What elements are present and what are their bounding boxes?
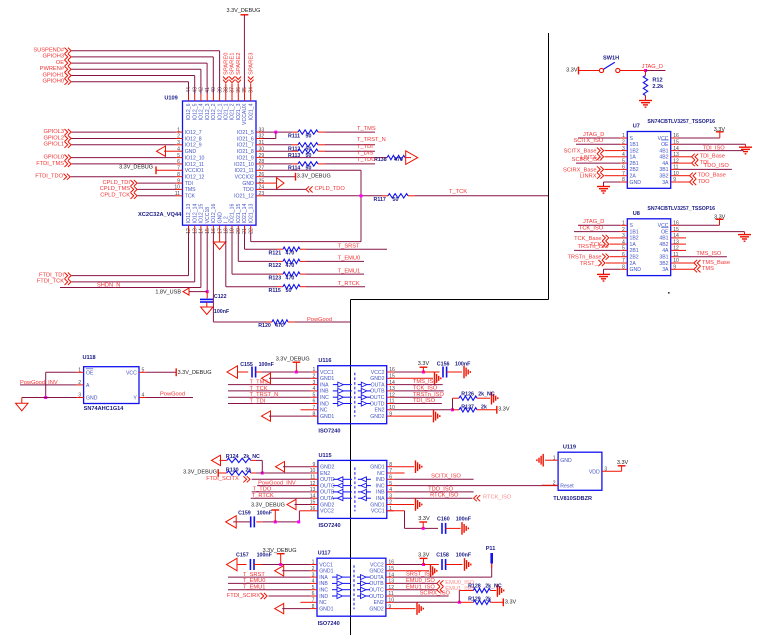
- svg-text:34: 34: [248, 87, 254, 93]
- svg-text:3B2: 3B2: [659, 174, 668, 180]
- svg-text:2.2k: 2.2k: [652, 84, 664, 90]
- svg-text:OE: OE: [661, 229, 669, 235]
- svg-text:6: 6: [177, 159, 180, 165]
- svg-text:1: 1: [553, 455, 556, 461]
- svg-text:5: 5: [622, 158, 625, 164]
- svg-text:GND2: GND2: [370, 414, 384, 420]
- svg-text:VCC: VCC: [658, 223, 669, 229]
- svg-text:1B1: 1B1: [630, 229, 639, 235]
- svg-text:R123: R123: [269, 276, 282, 282]
- svg-text:GPIOH1: GPIOH1: [43, 72, 65, 78]
- svg-text:R121: R121: [269, 251, 282, 257]
- svg-text:TDO_ISO: TDO_ISO: [428, 486, 454, 492]
- svg-text:IND: IND: [320, 401, 329, 407]
- svg-text:44: 44: [186, 87, 192, 93]
- svg-text:T_DIS: T_DIS: [357, 151, 373, 157]
- svg-text:38: 38: [224, 87, 230, 93]
- svg-text:SCITX_ISO: SCITX_ISO: [431, 474, 461, 480]
- svg-text:GPIOL0: GPIOL0: [43, 154, 64, 160]
- svg-text:TCK_ISO: TCK_ISO: [413, 386, 438, 392]
- svg-text:IO21_8: IO21_8: [237, 149, 254, 155]
- svg-text:TDI_ISO: TDI_ISO: [703, 146, 726, 152]
- svg-text:100nF: 100nF: [456, 553, 472, 559]
- svg-text:SPARE2: SPARE2: [236, 53, 242, 75]
- svg-text:IND: IND: [376, 477, 385, 483]
- svg-text:7: 7: [622, 258, 625, 264]
- svg-text:IO21_5: IO21_5: [237, 130, 254, 136]
- svg-text:GND: GND: [630, 180, 642, 186]
- svg-text:INA: INA: [376, 496, 385, 502]
- svg-text:R124: R124: [226, 454, 239, 460]
- svg-text:VCC18: VCC18: [205, 207, 211, 224]
- svg-text:OUTA: OUTA: [371, 382, 385, 388]
- svg-text:TLV810SDBZR: TLV810SDBZR: [553, 496, 592, 502]
- svg-text:GPIOH3: GPIOH3: [43, 54, 65, 60]
- svg-text:6: 6: [622, 252, 625, 258]
- svg-text:TMS_ISO: TMS_ISO: [413, 379, 439, 385]
- svg-text:100nF: 100nF: [214, 309, 230, 315]
- svg-text:GND2: GND2: [320, 465, 334, 471]
- svg-text:SCITX_ISO: SCITX_ISO: [573, 138, 603, 144]
- svg-text:T_TRST_N: T_TRST_N: [250, 392, 279, 398]
- svg-text:1B2: 1B2: [630, 236, 639, 242]
- svg-text:18: 18: [224, 228, 230, 234]
- svg-text:CPLD_TMS: CPLD_TMS: [100, 186, 131, 192]
- svg-text:3.3V: 3.3V: [617, 460, 629, 466]
- svg-text:2: 2: [553, 481, 556, 487]
- svg-text:R126: R126: [461, 392, 474, 398]
- svg-text:OUTD: OUTD: [369, 594, 384, 600]
- svg-text:U118: U118: [83, 355, 96, 361]
- svg-text:VCC2: VCC2: [370, 562, 384, 568]
- svg-text:T_EMU1: T_EMU1: [338, 268, 360, 274]
- svg-text:IO12_13: IO12_13: [186, 204, 192, 224]
- svg-text:2B2: 2B2: [630, 167, 639, 173]
- svg-text:JTAG_D: JTAG_D: [583, 219, 604, 225]
- svg-text:A: A: [86, 383, 90, 389]
- svg-text:SUSPEND#: SUSPEND#: [33, 48, 64, 54]
- svg-text:9: 9: [673, 177, 676, 183]
- svg-text:12: 12: [186, 228, 192, 234]
- svg-text:INB: INB: [319, 581, 328, 587]
- svg-text:50: 50: [306, 134, 312, 140]
- svg-text:INB: INB: [376, 490, 385, 496]
- svg-text:INC: INC: [319, 588, 328, 594]
- svg-text:NC: NC: [320, 408, 328, 414]
- svg-text:4: 4: [389, 487, 392, 493]
- svg-text:VCC: VCC: [658, 136, 669, 142]
- svg-text:3B2: 3B2: [659, 261, 668, 267]
- svg-text:VCC1: VCC1: [320, 370, 334, 376]
- svg-text:FTDI_TMS: FTDI_TMS: [36, 161, 64, 167]
- svg-text:ISO7240: ISO7240: [318, 621, 340, 627]
- svg-text:GND1: GND1: [319, 606, 333, 612]
- svg-text:50: 50: [393, 197, 399, 203]
- svg-text:IO21_11: IO21_11: [234, 168, 253, 174]
- svg-text:OE: OE: [661, 142, 669, 148]
- svg-text:6: 6: [622, 165, 625, 171]
- svg-text:GND1: GND1: [370, 465, 384, 471]
- svg-text:TMS_Base: TMS_Base: [702, 260, 730, 266]
- svg-text:R115: R115: [269, 288, 281, 294]
- svg-text:5: 5: [177, 153, 180, 159]
- svg-text:TCK_ISO: TCK_ISO: [579, 225, 604, 231]
- svg-text:IO21_15: IO21_15: [236, 204, 242, 224]
- svg-text:T_TDO: T_TDO: [357, 157, 376, 163]
- svg-text:ISO7240: ISO7240: [319, 523, 341, 529]
- svg-text:SPARE3: SPARE3: [248, 53, 254, 75]
- svg-text:U8: U8: [633, 211, 640, 217]
- svg-text:GPIOL1: GPIOL1: [43, 142, 64, 148]
- svg-text:VCCAUX: VCCAUX: [242, 103, 248, 125]
- svg-text:OUTC: OUTC: [320, 483, 335, 489]
- svg-text:3: 3: [78, 393, 81, 399]
- svg-text:SN74CBTLV3257_TSSOP16: SN74CBTLV3257_TSSOP16: [647, 119, 715, 125]
- svg-text:5: 5: [312, 585, 315, 591]
- svg-text:U109: U109: [164, 96, 177, 102]
- svg-text:OE: OE: [86, 370, 94, 376]
- svg-text:TCK_Base: TCK_Base: [574, 236, 602, 242]
- svg-text:GND: GND: [630, 267, 642, 273]
- svg-text:1: 1: [622, 221, 625, 227]
- svg-text:SHDN_N: SHDN_N: [97, 282, 120, 288]
- svg-text:OUTD: OUTD: [370, 401, 385, 407]
- svg-text:4B2: 4B2: [659, 155, 668, 161]
- svg-text:C122: C122: [214, 294, 227, 300]
- svg-text:GND2: GND2: [320, 502, 334, 508]
- svg-text:R120: R120: [258, 323, 271, 329]
- svg-text:3A: 3A: [662, 180, 669, 186]
- svg-text:5: 5: [312, 392, 315, 398]
- svg-text:9: 9: [389, 411, 392, 417]
- svg-text:IO12_4: IO12_4: [199, 103, 205, 120]
- svg-text:2: 2: [389, 500, 392, 506]
- svg-text:C158: C158: [436, 553, 449, 559]
- svg-text:4B2: 4B2: [659, 242, 668, 248]
- svg-text:SRST_ISO: SRST_ISO: [406, 572, 435, 578]
- svg-text:1A: 1A: [630, 242, 637, 248]
- svg-text:2A: 2A: [630, 261, 637, 267]
- svg-text:R128: R128: [468, 584, 481, 590]
- svg-text:VCC1: VCC1: [319, 562, 333, 568]
- svg-text:4: 4: [142, 393, 145, 399]
- svg-text:IO12_9: IO12_9: [185, 143, 202, 149]
- svg-text:14: 14: [199, 228, 205, 234]
- svg-text:GND1: GND1: [319, 569, 333, 575]
- svg-text:3.3V: 3.3V: [418, 516, 430, 522]
- svg-text:R122: R122: [269, 263, 282, 269]
- svg-text:FTDI_TDI: FTDI_TDI: [39, 272, 64, 278]
- svg-text:T_EMU1: T_EMU1: [243, 585, 265, 591]
- svg-text:IO12_15: IO12_15: [199, 204, 205, 224]
- svg-text:I_2: I_2: [224, 216, 230, 223]
- svg-text:CPLD_TCK: CPLD_TCK: [100, 193, 130, 199]
- svg-text:IO21_10: IO21_10: [234, 162, 254, 168]
- svg-text:3: 3: [622, 146, 625, 152]
- svg-text:OUTB: OUTB: [369, 581, 384, 587]
- svg-text:PowGood: PowGood: [307, 317, 332, 323]
- svg-text:1: 1: [312, 560, 315, 566]
- svg-text:OUTB: OUTB: [370, 389, 385, 395]
- svg-text:C159: C159: [238, 510, 251, 516]
- svg-text:C160: C160: [437, 516, 450, 522]
- svg-text:EMU0_ISO: EMU0_ISO: [406, 578, 435, 584]
- svg-text:4B1: 4B1: [659, 236, 668, 242]
- svg-text:SPARE0: SPARE0: [224, 53, 230, 75]
- svg-text:4: 4: [177, 146, 180, 152]
- svg-text:R127: R127: [461, 404, 474, 410]
- svg-text:EN2: EN2: [320, 471, 330, 477]
- svg-text:2: 2: [177, 134, 180, 140]
- svg-text:VCCIO1: VCCIO1: [185, 168, 204, 174]
- svg-text:17: 17: [217, 228, 223, 234]
- svg-text:IND: IND: [319, 594, 328, 600]
- svg-text:4: 4: [312, 579, 315, 585]
- svg-text:TMS: TMS: [185, 187, 196, 193]
- svg-text:IO12_1: IO12_1: [217, 103, 223, 120]
- svg-text:100nF: 100nF: [257, 510, 273, 516]
- svg-text:11: 11: [175, 191, 180, 197]
- svg-text:TRSTn_ISO: TRSTn_ISO: [578, 244, 610, 250]
- svg-text:RTCK_ISO: RTCK_ISO: [430, 493, 459, 499]
- svg-text:470: 470: [275, 323, 284, 329]
- svg-text:3.3V: 3.3V: [714, 215, 726, 221]
- svg-text:OE: OE: [56, 60, 64, 66]
- svg-text:GND: GND: [86, 396, 98, 402]
- svg-text:2B1: 2B1: [630, 161, 639, 167]
- svg-text:SCIRX_ISO: SCIRX_ISO: [420, 591, 451, 597]
- svg-text:IO12_8: IO12_8: [185, 136, 202, 142]
- svg-text:2: 2: [312, 374, 315, 380]
- svg-text:IO21_14: IO21_14: [242, 204, 248, 224]
- svg-text:40: 40: [211, 87, 217, 93]
- svg-text:11: 11: [310, 475, 315, 481]
- svg-text:IO21_4: IO21_4: [248, 103, 254, 120]
- svg-text:4A: 4A: [662, 248, 669, 254]
- svg-text:T_SRST: T_SRST: [243, 572, 265, 578]
- svg-text:3A: 3A: [662, 267, 669, 273]
- svg-text:1: 1: [177, 127, 180, 133]
- svg-text:CPLD_TDI: CPLD_TDI: [103, 180, 131, 186]
- svg-text:3.3V: 3.3V: [418, 361, 430, 367]
- svg-text:IO12_10: IO12_10: [185, 155, 205, 161]
- svg-text:35: 35: [242, 87, 248, 93]
- svg-text:1.8V_USB: 1.8V_USB: [155, 290, 181, 296]
- svg-text:NC: NC: [377, 471, 385, 477]
- svg-text:VCC: VCC: [126, 370, 137, 376]
- svg-text:TMS: TMS: [702, 266, 714, 272]
- svg-text:S: S: [630, 136, 634, 142]
- svg-text:4: 4: [312, 386, 315, 392]
- svg-text:INB: INB: [320, 389, 329, 395]
- svg-text:9: 9: [673, 265, 676, 271]
- svg-text:3: 3: [389, 493, 392, 499]
- svg-text:INA: INA: [319, 575, 328, 581]
- svg-text:T_TCK: T_TCK: [449, 189, 467, 195]
- svg-text:GND1: GND1: [320, 414, 334, 420]
- svg-text:IO12_5: IO12_5: [192, 103, 198, 120]
- svg-text:T_SRST: T_SRST: [338, 243, 360, 249]
- svg-text:3.3V: 3.3V: [505, 600, 517, 606]
- svg-text:SCIRX_Base: SCIRX_Base: [563, 167, 597, 173]
- svg-text:100nF: 100nF: [456, 516, 472, 522]
- svg-text:3.3V_DEBUG: 3.3V_DEBUG: [276, 356, 310, 362]
- svg-text:20: 20: [236, 228, 242, 234]
- svg-text:2A: 2A: [630, 174, 637, 180]
- svg-text:OUTB: OUTB: [320, 490, 335, 496]
- svg-text:IO21_16: IO21_16: [230, 204, 236, 224]
- svg-text:3: 3: [604, 467, 607, 473]
- svg-text:SPARE1: SPARE1: [230, 53, 236, 75]
- svg-text:8: 8: [312, 411, 315, 417]
- svg-text:1: 1: [78, 368, 81, 374]
- svg-text:TMS_ISO: TMS_ISO: [696, 251, 722, 257]
- svg-text:7: 7: [622, 171, 625, 177]
- svg-text:T_TMS: T_TMS: [250, 380, 269, 386]
- svg-text:IO12_12: IO12_12: [185, 175, 205, 181]
- svg-text:8: 8: [622, 177, 625, 183]
- svg-text:3.3V_DEBUG: 3.3V_DEBUG: [183, 470, 217, 476]
- svg-text:43: 43: [192, 87, 198, 93]
- svg-text:7: 7: [312, 405, 315, 411]
- svg-text:GPIOL2: GPIOL2: [43, 135, 64, 141]
- svg-text:3B1: 3B1: [659, 255, 668, 261]
- svg-text:JTAG_D: JTAG_D: [642, 64, 663, 70]
- svg-text:R12: R12: [652, 77, 662, 83]
- svg-text:FTDI_TCK: FTDI_TCK: [37, 279, 64, 285]
- svg-text:TRSTn_ISO: TRSTn_ISO: [413, 392, 445, 398]
- svg-text:41: 41: [205, 87, 211, 93]
- svg-text:GPIOL3: GPIOL3: [43, 129, 64, 135]
- svg-text:IO12_11: IO12_11: [185, 162, 204, 168]
- svg-text:GPIOH0: GPIOH0: [43, 79, 65, 85]
- svg-text:OUTA: OUTA: [320, 496, 334, 502]
- svg-text:IO21_9: IO21_9: [237, 155, 254, 161]
- svg-text:IO21_7: IO21_7: [237, 143, 254, 149]
- svg-text:3.3V_DEBUG: 3.3V_DEBUG: [119, 164, 153, 170]
- svg-text:3.3V: 3.3V: [498, 407, 510, 413]
- svg-text:PWREN#: PWREN#: [40, 66, 65, 72]
- svg-text:100nF: 100nF: [257, 552, 273, 558]
- svg-text:VCC2: VCC2: [320, 509, 334, 515]
- svg-text:U7: U7: [633, 124, 640, 130]
- svg-text:T_TRST_N: T_TRST_N: [357, 137, 386, 143]
- svg-text:100nF: 100nF: [259, 362, 275, 368]
- svg-text:OUTC: OUTC: [369, 588, 384, 594]
- svg-text:1: 1: [622, 133, 625, 139]
- svg-text:NC: NC: [319, 600, 327, 606]
- svg-text:IO21_1: IO21_1: [224, 103, 230, 120]
- svg-text:21: 21: [242, 228, 248, 234]
- svg-text:CPLD_TDO: CPLD_TDO: [315, 186, 346, 192]
- svg-text:IO21_13: IO21_13: [248, 204, 254, 224]
- svg-text:1B2: 1B2: [630, 148, 639, 154]
- svg-text:XC2C32A_VQ44: XC2C32A_VQ44: [138, 212, 182, 218]
- svg-text:EMU1_ISO: EMU1_ISO: [406, 584, 435, 590]
- svg-text:2k_NC: 2k_NC: [485, 584, 502, 590]
- svg-text:1: 1: [312, 367, 315, 373]
- svg-text:SN74CBTLV3257_TSSOP16: SN74CBTLV3257_TSSOP16: [647, 206, 715, 212]
- svg-text:U119: U119: [563, 444, 576, 450]
- svg-text:470: 470: [286, 263, 295, 269]
- svg-text:JTAG_D: JTAG_D: [583, 132, 604, 138]
- svg-text:3: 3: [312, 572, 315, 578]
- svg-text:8: 8: [389, 462, 392, 468]
- svg-text:IO12_7: IO12_7: [185, 130, 202, 136]
- svg-text:470: 470: [394, 157, 403, 163]
- svg-text:9: 9: [177, 178, 180, 184]
- svg-text:3: 3: [177, 140, 180, 146]
- svg-text:2: 2: [622, 227, 625, 233]
- svg-text:INC: INC: [320, 395, 329, 401]
- svg-text:22: 22: [248, 228, 254, 234]
- svg-text:RTCK_ISO: RTCK_ISO: [483, 495, 512, 501]
- svg-text:IO12_16: IO12_16: [211, 204, 217, 224]
- svg-text:470: 470: [286, 251, 295, 257]
- svg-text:8: 8: [622, 265, 625, 271]
- svg-text:7: 7: [312, 598, 315, 604]
- svg-text:16: 16: [211, 228, 217, 234]
- svg-text:9: 9: [388, 604, 391, 610]
- svg-text:5: 5: [622, 246, 625, 252]
- svg-text:2: 2: [622, 140, 625, 146]
- svg-text:SW1H: SW1H: [603, 55, 619, 61]
- svg-text:37: 37: [230, 87, 236, 93]
- svg-text:TDO_ISO: TDO_ISO: [704, 163, 730, 169]
- svg-text:6: 6: [312, 591, 315, 597]
- svg-text:EN2: EN2: [374, 408, 384, 414]
- svg-text:3.3V: 3.3V: [418, 552, 430, 558]
- svg-text:OUTA: OUTA: [370, 575, 384, 581]
- svg-text:T_RTCK: T_RTCK: [338, 281, 360, 287]
- svg-text:C156: C156: [437, 361, 450, 367]
- svg-text:FTDI_TDO: FTDI_TDO: [35, 174, 63, 180]
- svg-text:C157: C157: [236, 552, 249, 558]
- svg-text:5: 5: [389, 481, 392, 487]
- svg-text:U116: U116: [318, 358, 331, 364]
- svg-text:GND2: GND2: [370, 376, 384, 382]
- svg-text:IO21_12: IO21_12: [234, 194, 254, 200]
- svg-text:S: S: [630, 223, 634, 229]
- svg-text:2k: 2k: [485, 597, 491, 603]
- svg-text:3B1: 3B1: [659, 167, 668, 173]
- svg-text:VCC1: VCC1: [371, 509, 385, 515]
- svg-text:OUTC: OUTC: [370, 395, 385, 401]
- svg-text:GND1: GND1: [320, 376, 334, 382]
- svg-text:TDO: TDO: [698, 179, 711, 185]
- svg-text:TDO: TDO: [243, 187, 254, 193]
- svg-text:TDI_ISO: TDI_ISO: [413, 398, 436, 404]
- svg-text:GND: GND: [185, 149, 197, 155]
- svg-text:2k_NC: 2k_NC: [478, 392, 495, 398]
- svg-text:VCCIO2: VCCIO2: [235, 175, 254, 181]
- svg-text:2B1: 2B1: [630, 248, 639, 254]
- svg-text:13: 13: [192, 228, 198, 234]
- svg-text:36: 36: [236, 87, 242, 93]
- svg-text:R129: R129: [468, 597, 481, 603]
- svg-text:TCK: TCK: [185, 194, 196, 200]
- svg-text:GND: GND: [242, 181, 254, 187]
- svg-text:39: 39: [217, 87, 223, 93]
- svg-text:R130: R130: [226, 468, 239, 474]
- svg-text:T_TMS: T_TMS: [357, 126, 376, 132]
- svg-text:GND2: GND2: [369, 606, 383, 612]
- svg-text:T_EMU0: T_EMU0: [243, 578, 265, 584]
- svg-text:IO12_14: IO12_14: [192, 204, 198, 224]
- svg-text:IO21_2: IO21_2: [230, 103, 236, 120]
- svg-text:3.3V: 3.3V: [566, 67, 578, 73]
- svg-text:R111: R111: [288, 134, 300, 140]
